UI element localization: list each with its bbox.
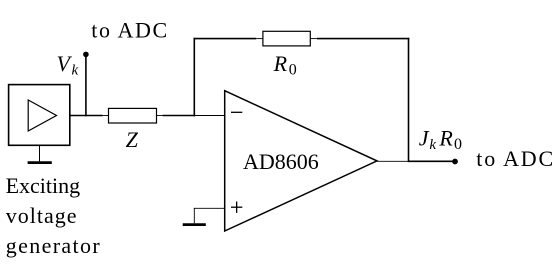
generator box: [9, 85, 70, 146]
node Vk dot: [83, 52, 89, 58]
svg-text:J: J: [419, 126, 430, 151]
wire: Z to feedback junction: [163, 115, 196, 117]
svg-text:k: k: [72, 63, 79, 79]
wire: thin lead out of R0: [310, 38, 317, 40]
svg-text:voltage: voltage: [6, 203, 78, 228]
op-amp U1 AD8606 triangle: [225, 91, 377, 231]
resistor R0: [263, 31, 310, 46]
svg-text:R: R: [273, 51, 288, 76]
wire: feedback left vertical: [193, 38, 195, 117]
node JkR0 dot: [452, 159, 458, 165]
ground bar at non-inverting input: [183, 223, 206, 226]
svg-text:0: 0: [454, 136, 462, 153]
wire: feedback top left to R0: [194, 38, 257, 40]
op-amp minus sign: [231, 111, 242, 113]
ground stem below generator: [39, 145, 41, 161]
wire: R0 to feedback right vertical: [317, 38, 409, 40]
svg-text:to ADC: to ADC: [476, 146, 555, 171]
wire: thin lead to op-amp non-inverting input: [194, 207, 225, 209]
svg-text:Exciting: Exciting: [6, 173, 81, 198]
wire: thin lead junction to op-amp inverting input: [194, 115, 224, 117]
ground bar below generator: [28, 161, 52, 164]
svg-text:AD8606: AD8606: [243, 149, 319, 174]
wire: feedback right vertical: [408, 38, 410, 162]
svg-text:generator: generator: [6, 233, 101, 258]
generator buffer triangle: [28, 100, 56, 131]
svg-text:k: k: [429, 137, 436, 153]
ground stem at non-inverting input: [193, 208, 195, 223]
svg-text:Z: Z: [126, 127, 139, 152]
op-amp plus sign: [231, 206, 242, 208]
wire: output to node: [409, 160, 455, 162]
wire: generator output to resistor Z: [70, 115, 103, 117]
wire: thin lead out of Z: [157, 115, 163, 117]
resistor Z: [109, 108, 157, 123]
wire: thin lead into R0: [256, 38, 263, 40]
wire: thin op-amp output lead: [377, 160, 409, 162]
node Vk tap wire: [85, 54, 87, 116]
svg-text:R: R: [438, 126, 453, 151]
wire: thin lead into Z: [103, 115, 109, 117]
svg-text:to ADC: to ADC: [91, 18, 168, 43]
svg-text:0: 0: [289, 62, 297, 79]
